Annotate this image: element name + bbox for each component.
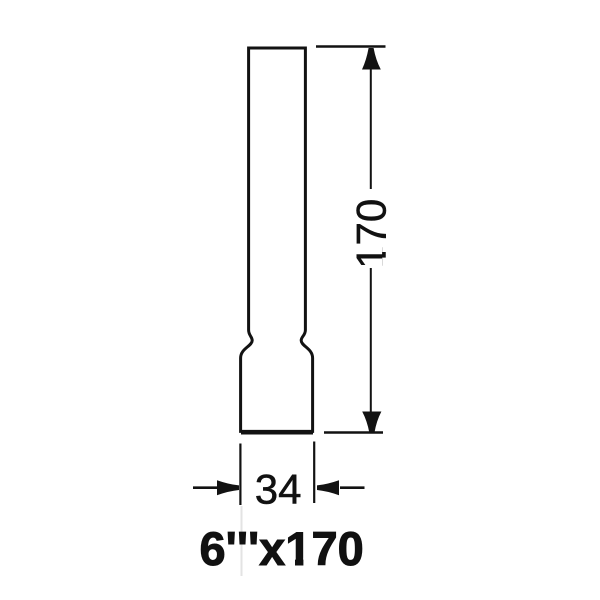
dimension line 170 lower segment [370, 268, 372, 414]
extension line top (for 170 dim) [316, 45, 386, 47]
lamp chimney outline [241, 48, 313, 431]
faint scan artifact line below left extension [241, 506, 243, 576]
svg-text:6'''x170: 6'''x170 [200, 522, 364, 575]
arrowhead down (170 dim) [362, 412, 381, 434]
chimney base bottom line (thicker) [241, 431, 313, 435]
arrowhead right-pointing (34 dim) [217, 480, 239, 495]
dimension line 170 upper segment [370, 66, 372, 189]
extension line right (for 34 dim) [313, 442, 315, 504]
arrow right shaft (34 dim) [340, 486, 365, 489]
mask foot serif of rotated digit 1 [382, 244, 388, 253]
arrow left shaft (34 dim) [193, 486, 222, 489]
arrowhead left-pointing (34 dim) [317, 480, 339, 495]
mask foot serif of caption digit 1 [287, 558, 295, 568]
extension line bottom (for 170 dim) [324, 431, 383, 433]
extension line left (for 34 dim) [239, 444, 241, 506]
arrowhead up (170 dim) [362, 48, 381, 70]
svg-text:34: 34 [255, 465, 302, 512]
